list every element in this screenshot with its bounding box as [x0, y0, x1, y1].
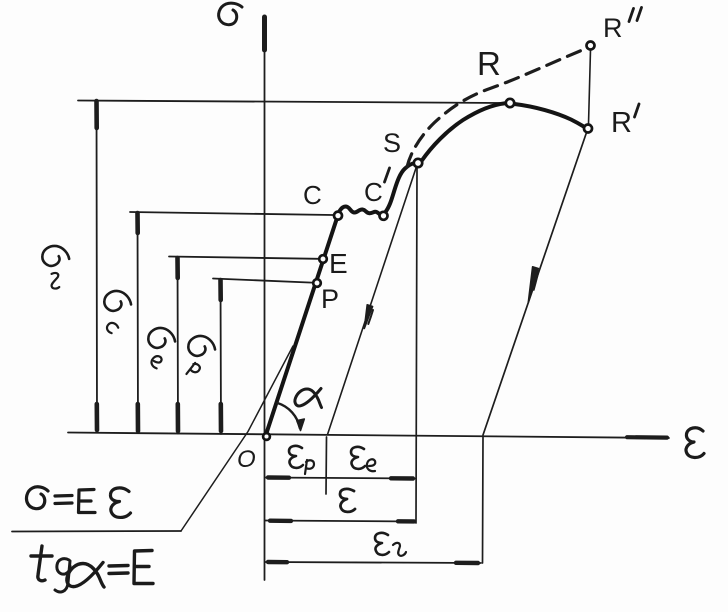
- svg-text:S: S: [383, 128, 401, 158]
- svg-text:C: C: [364, 177, 383, 207]
- svg-text:O: O: [237, 446, 256, 473]
- svg-text:R: R: [603, 13, 623, 43]
- svg-text:C: C: [303, 180, 322, 210]
- svg-text:P: P: [321, 284, 339, 314]
- svg-text:E: E: [329, 248, 348, 279]
- svg-text:R: R: [477, 45, 501, 82]
- svg-text:R: R: [611, 107, 632, 139]
